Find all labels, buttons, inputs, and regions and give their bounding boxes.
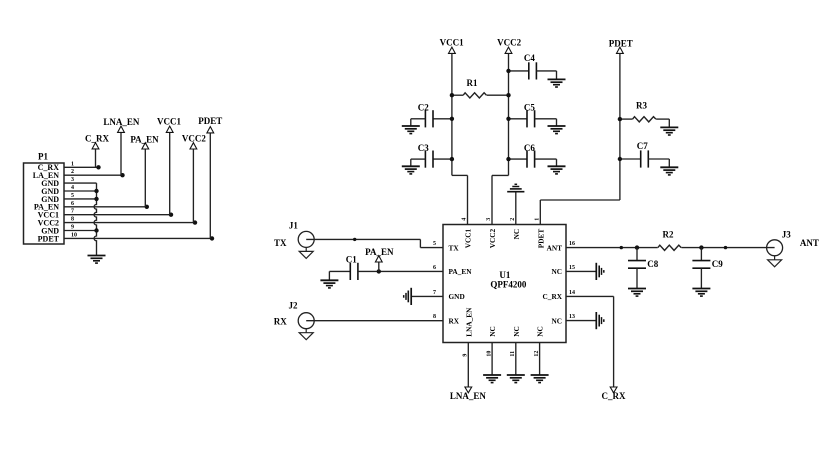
svg-text:16: 16 <box>569 241 575 247</box>
svg-text:RX: RX <box>274 317 287 327</box>
svg-text:8: 8 <box>433 314 436 320</box>
svg-text:15: 15 <box>569 265 575 271</box>
svg-text:R2: R2 <box>663 230 674 240</box>
svg-text:C_RX: C_RX <box>602 391 626 401</box>
svg-text:14: 14 <box>569 290 575 296</box>
svg-text:PDET: PDET <box>609 39 633 49</box>
svg-text:13: 13 <box>569 314 575 320</box>
svg-text:TX: TX <box>449 243 460 252</box>
svg-text:7: 7 <box>71 209 74 215</box>
svg-text:NC: NC <box>488 326 497 337</box>
svg-text:PDET: PDET <box>38 234 60 243</box>
svg-text:NC: NC <box>551 267 562 276</box>
svg-text:1: 1 <box>535 218 541 221</box>
svg-text:PDET: PDET <box>536 229 545 249</box>
svg-text:C5: C5 <box>524 102 535 112</box>
svg-text:PA_EN: PA_EN <box>365 247 394 257</box>
svg-text:VCC1: VCC1 <box>440 38 464 48</box>
svg-text:R1: R1 <box>467 78 478 88</box>
svg-text:6: 6 <box>71 201 74 207</box>
svg-text:2: 2 <box>71 169 74 175</box>
svg-text:PA_EN: PA_EN <box>130 135 159 145</box>
svg-text:C_RX: C_RX <box>543 292 563 301</box>
svg-text:C2: C2 <box>418 102 429 112</box>
svg-text:C9: C9 <box>712 259 723 269</box>
svg-text:8: 8 <box>71 217 74 223</box>
svg-text:4: 4 <box>462 218 468 221</box>
svg-text:VCC1: VCC1 <box>157 117 181 127</box>
svg-text:C7: C7 <box>637 141 648 151</box>
svg-text:10: 10 <box>71 232 77 238</box>
svg-text:J3: J3 <box>782 229 792 239</box>
svg-text:VCC2: VCC2 <box>182 133 206 143</box>
svg-text:LNA_EN: LNA_EN <box>464 307 473 337</box>
svg-text:TX: TX <box>274 238 287 248</box>
svg-text:NC: NC <box>536 326 545 337</box>
svg-text:ANT: ANT <box>800 238 819 248</box>
svg-text:7: 7 <box>433 290 436 296</box>
svg-text:R3: R3 <box>636 100 647 110</box>
svg-text:LNA_EN: LNA_EN <box>103 117 140 127</box>
svg-text:NC: NC <box>551 316 562 325</box>
svg-text:C1: C1 <box>346 254 357 264</box>
svg-text:9: 9 <box>71 225 74 231</box>
svg-text:VCC1: VCC1 <box>464 228 473 248</box>
svg-text:3: 3 <box>486 218 492 221</box>
svg-text:GND: GND <box>449 292 465 301</box>
svg-text:PA_EN: PA_EN <box>449 267 473 276</box>
svg-text:4: 4 <box>71 185 74 191</box>
svg-text:5: 5 <box>433 241 436 247</box>
svg-text:PDET: PDET <box>198 116 222 126</box>
svg-text:VCC2: VCC2 <box>497 38 521 48</box>
svg-text:1: 1 <box>71 161 74 167</box>
svg-text:J2: J2 <box>289 300 299 310</box>
svg-text:ANT: ANT <box>547 243 563 252</box>
svg-text:NC: NC <box>512 326 521 337</box>
svg-text:C6: C6 <box>524 143 535 153</box>
svg-text:VCC2: VCC2 <box>488 228 497 248</box>
svg-text:5: 5 <box>71 193 74 199</box>
svg-text:C8: C8 <box>647 259 658 269</box>
svg-text:3: 3 <box>71 177 74 183</box>
svg-text:C3: C3 <box>418 143 429 153</box>
svg-text:NC: NC <box>512 229 521 240</box>
svg-text:6: 6 <box>433 265 436 271</box>
svg-text:RX: RX <box>449 316 460 325</box>
svg-text:2: 2 <box>510 218 516 221</box>
svg-text:C4: C4 <box>524 53 535 63</box>
svg-text:J1: J1 <box>289 220 299 230</box>
svg-text:C_RX: C_RX <box>85 133 109 143</box>
svg-text:P1: P1 <box>38 152 48 162</box>
svg-text:LNA_EN: LNA_EN <box>450 391 487 401</box>
svg-text:QPF4200: QPF4200 <box>490 279 526 289</box>
svg-text:11: 11 <box>510 351 516 357</box>
svg-text:12: 12 <box>534 351 540 357</box>
svg-text:9: 9 <box>463 354 469 357</box>
svg-text:10: 10 <box>486 351 492 357</box>
